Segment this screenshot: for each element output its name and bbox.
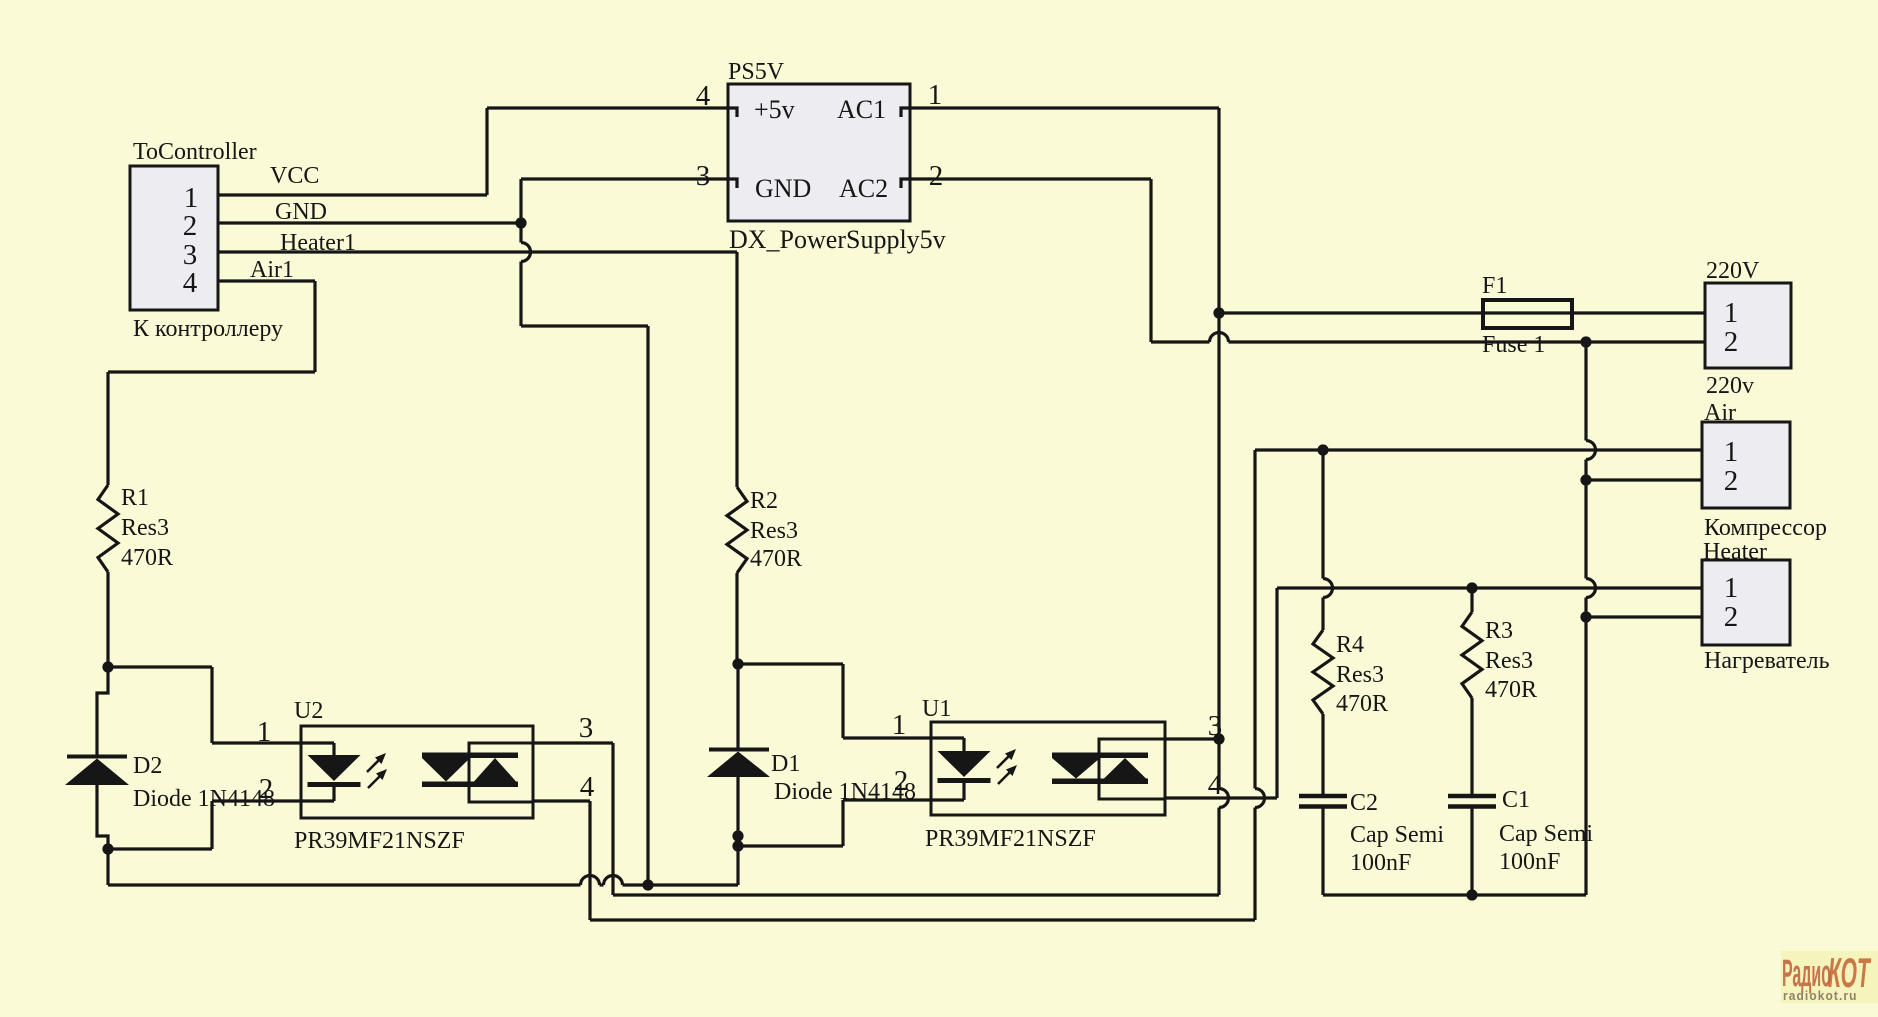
svg-text:4: 4 xyxy=(183,267,198,299)
label ToController xyxy=(133,139,257,165)
wire D2 anode down to GND rail xyxy=(106,849,109,885)
wire U2 pin1 riser xyxy=(210,667,213,743)
label 220V xyxy=(1706,258,1760,284)
svg-text:PR39MF21NSZF: PR39MF21NSZF xyxy=(294,828,465,854)
pin number 3 (PS5V) xyxy=(696,160,711,192)
svg-text:Air1: Air1 xyxy=(250,257,294,283)
wire D2 bottom jog xyxy=(97,785,108,849)
junction D1 cathode node xyxy=(732,658,743,669)
U1 triac bottom bar xyxy=(1052,779,1148,785)
svg-text:100nF: 100nF xyxy=(1499,849,1560,875)
wire live rail y895 xyxy=(613,893,1219,896)
U2 LED cathode bar xyxy=(308,782,361,787)
label R2 xyxy=(750,488,778,514)
U2 LED arrow 1 xyxy=(367,753,386,772)
wire air rail y920 xyxy=(590,918,1255,921)
wire D1 top lead xyxy=(736,664,739,749)
wire neutral riser seg1 xyxy=(1584,342,1587,441)
capacitor C2 top plate xyxy=(1299,794,1347,799)
resistor R1 xyxy=(98,485,118,572)
label R4 470R xyxy=(1336,691,1388,717)
U2 triac top bar xyxy=(422,753,518,759)
label К контроллеру xyxy=(133,316,283,342)
pin label AC2 xyxy=(839,174,888,203)
label C1 Cap Semi xyxy=(1499,821,1593,847)
wire AC2 horizontal segment 2 xyxy=(1229,340,1706,343)
U2 LED triangle xyxy=(308,755,361,781)
wire U2 pin3 out xyxy=(533,741,613,744)
junction snubber rail and C1 xyxy=(1466,889,1477,900)
svg-text:R4: R4 xyxy=(1336,632,1364,658)
svg-text:2: 2 xyxy=(929,160,944,192)
svg-text:220V: 220V xyxy=(1706,258,1760,284)
label Компрессор xyxy=(1704,515,1827,541)
wire D1 node to U1 pin1 horizontal xyxy=(738,662,843,665)
svg-text:U1: U1 xyxy=(922,696,951,722)
opto-triac U2 box xyxy=(301,726,533,818)
label D1 xyxy=(771,751,800,777)
wire U2 pin2 riser xyxy=(210,801,213,849)
label F1 xyxy=(1482,273,1507,299)
wire VCC riser xyxy=(485,108,488,195)
svg-text:2: 2 xyxy=(183,210,198,242)
watermark Радио xyxy=(1782,953,1831,995)
pin tick +5v xyxy=(728,108,737,117)
label DX_PowerSupply5v xyxy=(729,225,946,254)
U1 LED triangle xyxy=(938,751,991,777)
wire heater line y588 xyxy=(1277,586,1702,589)
wire GND from P1 pin2 xyxy=(218,221,521,224)
wire R3 top lead xyxy=(1470,588,1473,612)
wire D1 anode rail riser xyxy=(736,846,739,885)
diode D1 cathode bar xyxy=(709,748,769,752)
wire live riser x1219 lower xyxy=(1217,808,1220,896)
wire R4 riser lower xyxy=(1321,598,1324,631)
svg-text:Diode 1N4148: Diode 1N4148 xyxy=(133,786,275,812)
pin number 2 (Heater) xyxy=(1724,601,1739,633)
svg-text:AC1: AC1 xyxy=(837,95,886,124)
diode D2 cathode bar xyxy=(67,755,127,759)
connector Heater box xyxy=(1702,560,1790,645)
wire R4 riser upper xyxy=(1321,450,1324,579)
pin label AC1 xyxy=(837,95,886,124)
junction D1 anode node xyxy=(732,840,743,851)
pin number 1 (PS5V) xyxy=(928,79,943,111)
wire into U2 pin2 xyxy=(212,799,301,802)
svg-text:GND: GND xyxy=(755,174,811,203)
label R2 Res3 xyxy=(750,518,798,544)
wire U1 pin2 riser xyxy=(841,800,844,846)
connector Air box xyxy=(1702,422,1790,508)
hop live riser over U1 pin4 wire xyxy=(1219,789,1229,808)
wire GND bottom rail segment 3 xyxy=(623,883,739,886)
wire AC2 from PS5V pin2 xyxy=(910,177,1151,180)
wire C1 to rail xyxy=(1470,808,1473,895)
hop neutral over air line xyxy=(1586,441,1596,460)
svg-text:4: 4 xyxy=(580,771,595,803)
svg-text:PR39MF21NSZF: PR39MF21NSZF xyxy=(925,826,1096,852)
hop AC2 over live riser xyxy=(1210,333,1229,343)
label R4 xyxy=(1336,632,1364,658)
svg-text:C1: C1 xyxy=(1502,787,1530,813)
wire Air1 jog left xyxy=(108,370,315,373)
junction GND at x521 xyxy=(515,217,526,228)
svg-text:470R: 470R xyxy=(750,546,802,572)
pin number 3 (U2) xyxy=(579,712,594,744)
wire U2 pin4 out xyxy=(533,799,590,802)
capacitor C1 bottom plate xyxy=(1448,804,1496,809)
svg-text:2: 2 xyxy=(1724,326,1739,358)
svg-text:Res3: Res3 xyxy=(1485,648,1533,674)
pin number 2 (U1) xyxy=(894,765,909,797)
U1 LED cathode bar xyxy=(938,778,991,783)
wire Air1 down to R1 xyxy=(106,372,109,485)
U1 triac left triangle xyxy=(1052,758,1100,779)
wire D1 node to U1 pin2 horizontal xyxy=(738,844,843,847)
label R3 xyxy=(1485,618,1513,644)
label U2 PR39MF21NSZF xyxy=(294,828,465,854)
watermark КОТ xyxy=(1828,950,1871,997)
svg-text:1: 1 xyxy=(1724,572,1739,604)
hop air riser over U1 pin4 wire xyxy=(1255,789,1265,808)
wire U1 pin4 out xyxy=(1165,796,1277,799)
U2 triac right triangle xyxy=(474,758,516,782)
svg-text:AC2: AC2 xyxy=(839,174,888,203)
junction heater line and R3 xyxy=(1466,582,1477,593)
net label Air1 xyxy=(250,257,294,283)
U2 inner wire pin2 xyxy=(301,787,334,801)
watermark radiokot.ru xyxy=(1783,989,1858,1004)
pin number 3 (ToController) xyxy=(183,239,198,271)
wire AC2 riser xyxy=(1149,179,1152,342)
fuse F1 body xyxy=(1483,300,1572,328)
U1 inner wire pin2 xyxy=(931,783,964,800)
hop neutral over heater line xyxy=(1586,579,1596,598)
svg-text:VCC: VCC xyxy=(270,163,319,189)
wire air riser x1255 lower xyxy=(1253,808,1256,921)
junction air line and R4 xyxy=(1317,444,1328,455)
svg-text:1: 1 xyxy=(928,79,943,111)
junction live riser and fuse line xyxy=(1213,307,1224,318)
wire air riser x1255 upper xyxy=(1253,450,1256,789)
label U2 xyxy=(294,698,323,724)
pin label GND (PS5V) xyxy=(755,174,811,203)
svg-text:Cap Semi: Cap Semi xyxy=(1350,822,1444,848)
wire Heater1 from P1 pin3 xyxy=(218,250,737,253)
pin number 3 (U1) xyxy=(1208,710,1223,742)
junction neutral and heater pin2 xyxy=(1580,611,1591,622)
diode D1 triangle xyxy=(707,752,770,778)
capacitor C1 top plate xyxy=(1448,794,1496,799)
svg-text:Fuse 1: Fuse 1 xyxy=(1482,332,1545,358)
wire U2 pin3 riser xyxy=(611,743,614,895)
wire fused live to 220V pin1 xyxy=(1219,311,1705,314)
pin number 2 (PS5V) xyxy=(929,160,944,192)
U2 triac bottom bar xyxy=(422,782,518,788)
U1 triac right triangle xyxy=(1104,758,1146,779)
label U1 PR39MF21NSZF xyxy=(925,826,1096,852)
label R3 470R xyxy=(1485,677,1537,703)
svg-text:+5v: +5v xyxy=(754,95,795,124)
diode D2 triangle xyxy=(65,759,129,786)
pin number 2 (ToController) xyxy=(183,210,198,242)
wire GND bottom rail segment 1 xyxy=(108,883,581,886)
U1 inner wire pin1 xyxy=(931,738,964,751)
wire GND to PS5V pin3 xyxy=(521,177,728,180)
wire U1 pin3 out xyxy=(1165,737,1219,740)
svg-text:220v: 220v xyxy=(1706,373,1754,399)
svg-text:Heater: Heater xyxy=(1703,539,1767,565)
svg-text:R3: R3 xyxy=(1485,618,1513,644)
wire R3 to C1 xyxy=(1470,698,1473,794)
pin tick AC1 xyxy=(901,108,910,117)
svg-text:2: 2 xyxy=(1724,601,1739,633)
label D1 Diode 1N4148 xyxy=(774,779,916,805)
wire snubber bottom rail xyxy=(1323,893,1586,896)
wire GND riser down lower xyxy=(519,262,522,327)
connector P1 ToController box xyxy=(130,166,218,310)
pin tick GND xyxy=(728,179,737,188)
svg-text:DX_PowerSupply5v: DX_PowerSupply5v xyxy=(729,225,946,254)
svg-text:Компрессор: Компрессор xyxy=(1704,515,1827,541)
junction live riser and U1 pin3 xyxy=(1213,733,1224,744)
wire GND riser down upper xyxy=(519,223,522,243)
label R2 470R xyxy=(750,546,802,572)
pin number 4 (U1) xyxy=(1208,769,1223,801)
wire into U2 pin1 xyxy=(212,741,301,744)
pin number 4 (PS5V) xyxy=(696,80,711,112)
svg-text:F1: F1 xyxy=(1482,273,1507,299)
junction D2 cathode node xyxy=(102,661,113,672)
wire live riser x1219 upper xyxy=(1217,108,1220,789)
svg-text:2: 2 xyxy=(259,773,274,805)
svg-text:Res3: Res3 xyxy=(750,518,798,544)
svg-text:C2: C2 xyxy=(1350,790,1378,816)
wire U2 pin4 riser xyxy=(588,801,591,920)
wire VCC to PS5V pin4 xyxy=(487,106,728,109)
label C1 100nF xyxy=(1499,849,1560,875)
wire GND bottom rail segment 2 xyxy=(600,883,604,886)
svg-text:1: 1 xyxy=(257,716,272,748)
junction AC2 and neutral riser xyxy=(1580,336,1591,347)
wire R4 to C2 xyxy=(1321,714,1324,794)
wire AC1 from PS5V pin1 xyxy=(910,106,1219,109)
svg-text:1: 1 xyxy=(892,709,907,741)
hop GND rail over U2 pin3 riser xyxy=(604,876,623,885)
resistor R3 xyxy=(1462,612,1482,698)
junction GND rail to GND riser xyxy=(642,879,653,890)
net label VCC xyxy=(270,163,319,189)
wire neutral riser seg3 xyxy=(1584,598,1587,896)
pin number 1 (Heater) xyxy=(1724,572,1739,604)
pin number 2 (U2) xyxy=(259,773,274,805)
U1 LED arrow 2 xyxy=(998,765,1017,784)
svg-text:Cap Semi: Cap Semi xyxy=(1499,821,1593,847)
svg-text:1: 1 xyxy=(1724,297,1739,329)
label Heater xyxy=(1703,539,1767,565)
power module PS5V box xyxy=(728,84,910,221)
svg-text:R2: R2 xyxy=(750,488,778,514)
wire GND riser up xyxy=(519,179,522,223)
svg-text:3: 3 xyxy=(696,160,711,192)
wire D2 top jog xyxy=(97,667,108,755)
label R1 470R xyxy=(121,545,173,571)
pin number 2 (Air) xyxy=(1724,465,1739,497)
net label GND xyxy=(275,199,327,225)
svg-text:470R: 470R xyxy=(1485,677,1537,703)
wire neutral riser seg2 xyxy=(1584,460,1587,579)
svg-text:D1: D1 xyxy=(771,751,800,777)
svg-text:Нагреватель: Нагреватель xyxy=(1704,648,1830,674)
svg-text:U2: U2 xyxy=(294,698,323,724)
U2 triac left triangle xyxy=(422,758,470,782)
pin number 2 (220V) xyxy=(1724,326,1739,358)
U1 triac top bar xyxy=(1052,753,1148,759)
pin number 1 (U1) xyxy=(892,709,907,741)
wire Air1 riser xyxy=(313,281,316,372)
junction neutral and air pin2 xyxy=(1580,474,1591,485)
junction D2 anode node xyxy=(102,843,113,854)
svg-text:3: 3 xyxy=(579,712,594,744)
pin label +5v xyxy=(754,95,795,124)
wire air pin2 xyxy=(1586,478,1702,481)
label D2 xyxy=(133,753,162,779)
wire D1 bottom lead xyxy=(736,777,739,846)
label R3 Res3 xyxy=(1485,648,1533,674)
pin tick AC2 xyxy=(901,179,910,188)
U2 inner wire pin1 xyxy=(301,743,334,755)
U1 LED arrow 1 xyxy=(997,749,1016,768)
wire into U1 pin1 xyxy=(843,736,931,739)
svg-text:ToController: ToController xyxy=(133,139,257,165)
wire D2 node to U2 pin2 horizontal xyxy=(108,847,212,850)
watermark background xyxy=(1781,951,1878,1003)
svg-text:GND: GND xyxy=(275,199,327,225)
label C2 100nF xyxy=(1350,850,1411,876)
hop GND over Heater1 xyxy=(521,243,531,262)
wire R1 bottom lead xyxy=(106,572,109,667)
wire air line y450 xyxy=(1255,448,1702,451)
label R4 Res3 xyxy=(1336,662,1384,688)
label U1 xyxy=(922,696,951,722)
wire heater pin2 xyxy=(1586,615,1702,618)
svg-text:D2: D2 xyxy=(133,753,162,779)
svg-text:470R: 470R xyxy=(1336,691,1388,717)
pin number 4 (ToController) xyxy=(183,267,198,299)
U2 LED arrow 2 xyxy=(368,769,387,788)
wire U1 pin4 riser xyxy=(1275,588,1278,798)
label 220v xyxy=(1706,373,1754,399)
wire D2 node to U2 pin1 horizontal xyxy=(108,665,212,668)
svg-text:470R: 470R xyxy=(121,545,173,571)
label R1 xyxy=(121,485,149,511)
label PS5V xyxy=(728,59,785,85)
wire Air1 from P1 pin4 xyxy=(218,279,315,282)
pin number 1 (ToController) xyxy=(184,182,199,214)
svg-text:1: 1 xyxy=(1724,436,1739,468)
pin number 1 (220V) xyxy=(1724,297,1739,329)
opto-triac U1 box xyxy=(931,722,1165,815)
svg-text:2: 2 xyxy=(894,765,909,797)
wire GND jog right xyxy=(521,324,648,327)
connector 220V box xyxy=(1705,283,1791,368)
label R1 Res3 xyxy=(121,515,169,541)
svg-text:100nF: 100nF xyxy=(1350,850,1411,876)
label C2 Cap Semi xyxy=(1350,822,1444,848)
junction D1 anode upper xyxy=(732,830,743,841)
wire U1 pin1 riser xyxy=(841,664,844,738)
wire AC2 horizontal segment 1 xyxy=(1151,340,1210,343)
hop R4 riser over heater line xyxy=(1323,579,1333,598)
pin number 1 (U2) xyxy=(257,716,272,748)
wire Heater1 down to R2 xyxy=(735,252,738,487)
label D2 Diode 1N4148 xyxy=(133,786,275,812)
label Air xyxy=(1704,400,1736,426)
wire C2 to rail xyxy=(1321,808,1324,895)
wire GND long riser xyxy=(646,326,649,885)
U1 triac inner box xyxy=(1099,739,1165,799)
net label Heater1 xyxy=(280,230,356,256)
label Fuse 1 xyxy=(1482,332,1545,358)
resistor R4 xyxy=(1313,630,1333,714)
wire into U1 pin2 xyxy=(843,798,931,801)
svg-text:К контроллеру: К контроллеру xyxy=(133,316,283,342)
capacitor C2 bottom plate xyxy=(1299,804,1347,809)
svg-text:radiokot.ru: radiokot.ru xyxy=(1783,989,1858,1004)
pin number 1 (Air) xyxy=(1724,436,1739,468)
pin number 4 (U2) xyxy=(580,771,595,803)
U2 triac inner box xyxy=(469,743,533,802)
label Нагреватель xyxy=(1704,648,1830,674)
svg-text:Res3: Res3 xyxy=(1336,662,1384,688)
svg-text:R1: R1 xyxy=(121,485,149,511)
wire R2 bottom lead xyxy=(735,573,738,664)
label C2 xyxy=(1350,790,1378,816)
svg-text:2: 2 xyxy=(1724,465,1739,497)
svg-text:PS5V: PS5V xyxy=(728,59,785,85)
svg-text:Res3: Res3 xyxy=(121,515,169,541)
resistor R2 xyxy=(727,487,747,573)
svg-text:Air: Air xyxy=(1704,400,1736,426)
hop GND rail over U2 pin4 riser xyxy=(581,876,600,886)
label C1 xyxy=(1502,787,1530,813)
wire VCC horizontal from P1 pin1 xyxy=(218,193,487,196)
